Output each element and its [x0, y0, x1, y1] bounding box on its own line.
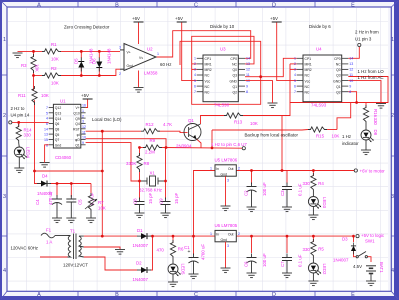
svg-text:D8: D8: [373, 130, 378, 136]
svg-text:16: 16: [82, 104, 86, 108]
svg-text:330: 330: [24, 133, 32, 138]
svg-text:2: 2: [391, 113, 394, 119]
svg-text:330: 330: [303, 181, 311, 186]
svg-text:+5V: +5V: [81, 93, 89, 98]
svg-text:11: 11: [246, 73, 250, 77]
svg-text:9: 9: [82, 141, 84, 145]
svg-text:Backup from local oscillator: Backup from local oscillator: [245, 133, 299, 138]
svg-text:R16: R16: [373, 109, 378, 118]
svg-text:U1 pin 3: U1 pin 3: [355, 37, 372, 42]
ground C5: [66, 218, 76, 223]
svg-text:Q7: Q7: [55, 138, 60, 142]
outer border band left: [0, 0, 2, 300]
wire Q1 emitter drop: [197, 139, 202, 148]
svg-text:B: B: [115, 3, 119, 9]
wire bottom rail to R11: [33, 76, 35, 91]
svg-text:LED5: LED5: [181, 264, 186, 276]
svg-text:1 Hz to pin C,6 U7: 1 Hz to pin C,6 U7: [211, 142, 247, 147]
wire U5 Out +6V rail: [236, 170, 354, 172]
svg-text:1: 1: [391, 37, 394, 43]
svg-text:4: 4: [46, 117, 48, 121]
svg-text:U5 LM7806: U5 LM7806: [215, 158, 238, 163]
svg-text:D1: D1: [137, 228, 143, 233]
wire R11 bottom to backup rail: [34, 100, 36, 171]
wire U6 Out +5V rail: [236, 235, 353, 237]
svg-text:8: 8: [246, 90, 248, 94]
svg-text:11: 11: [82, 130, 86, 134]
ground LED5: [168, 282, 178, 287]
ground D8: [361, 150, 371, 155]
outer border band right: [394, 0, 399, 300]
capacitor C7: [282, 254, 292, 265]
svg-text:330K: 330K: [126, 161, 136, 166]
wire U1 pin down to crystal left: [86, 143, 140, 181]
capacitor C4: [52, 195, 62, 207]
svg-text:U4: U4: [316, 47, 322, 52]
wire U4 Q out 1Hz row: [348, 77, 388, 103]
wire U4 MR hooks: [290, 63, 297, 65]
svg-text:D2: D2: [136, 261, 142, 266]
svg-text:1 Hz from AC: 1 Hz from AC: [358, 75, 384, 80]
svg-text:C7: C7: [280, 261, 285, 267]
svg-text:BAT1: BAT1: [379, 262, 384, 273]
ground C8: [135, 213, 145, 218]
wire R2 right to opamp - input: [60, 69, 120, 75]
wire C6 hang: [251, 236, 253, 253]
svg-text:Q0: Q0: [336, 68, 341, 72]
wire C3 hang: [286, 171, 288, 185]
resistor R11: [32, 86, 37, 105]
svg-text:CD4060: CD4060: [55, 155, 72, 160]
svg-text:D4: D4: [42, 174, 48, 179]
wire C1 hang: [193, 236, 195, 255]
wire R14 hang: [18, 122, 20, 127]
svg-text:Vcc: Vcc: [305, 79, 311, 83]
svg-text:32.768 KHz: 32.768 KHz: [139, 188, 162, 193]
svg-text:In: In: [216, 167, 219, 171]
LED2: [308, 263, 321, 275]
svg-text:R12: R12: [146, 122, 155, 127]
wire center tap to ground: [84, 247, 120, 249]
svg-text:3: 3: [391, 194, 394, 200]
wire R15 feed drop: [211, 130, 213, 148]
svg-text:R2: R2: [51, 66, 57, 71]
svg-text:6: 6: [46, 122, 48, 126]
svg-text:7: 7: [46, 106, 48, 110]
resistor R4: [311, 173, 316, 192]
svg-text:2: 2: [294, 62, 296, 66]
svg-text:330: 330: [303, 247, 311, 252]
svg-text:2N3904: 2N3904: [176, 144, 192, 149]
svg-text:1N4148: 1N4148: [107, 48, 112, 64]
svg-text:φI: φI: [77, 133, 80, 137]
svg-text:+5V: +5V: [175, 16, 183, 21]
+6V supply opamp: [134, 21, 144, 23]
wire crystal left down to C8: [139, 181, 141, 199]
battery BAT1: [366, 266, 376, 281]
terminal 2 Hz to U4 pin 14: [9, 121, 12, 124]
+5V supply U3: [177, 21, 187, 23]
svg-text:Local Osc (LO): Local Osc (LO): [92, 117, 122, 122]
svg-text:10K: 10K: [35, 64, 40, 72]
resistor R6: [170, 240, 175, 259]
svg-text:1: 1: [157, 52, 159, 56]
capacitor C6: [247, 254, 257, 266]
wire C2 hang: [251, 171, 253, 185]
svg-text:F1: F1: [46, 228, 52, 233]
svg-text:1: 1: [210, 167, 212, 171]
svg-text:A: A: [37, 3, 41, 9]
wire U4 GND to ground: [348, 81, 381, 104]
svg-text:GND: GND: [333, 79, 341, 83]
ground C6: [247, 273, 257, 278]
svg-text:11: 11: [349, 73, 353, 77]
svg-text:1: 1: [194, 57, 196, 61]
wire R12 to Q1 base: [158, 131, 188, 132]
svg-text:5: 5: [46, 111, 48, 115]
wire opamp ground stub: [138, 71, 140, 88]
resistor R14: [16, 124, 21, 143]
transistor Q1: [184, 124, 201, 141]
svg-text:Q10: Q10: [73, 112, 80, 116]
svg-text:470: 470: [157, 248, 165, 253]
svg-text:D: D: [272, 3, 276, 9]
wire R15 row from Q1 emitter line: [212, 129, 308, 132]
svg-text:+5V to logic: +5V to logic: [361, 233, 385, 238]
wire backup D4 branch: [35, 171, 42, 184]
wire cascade U3 to U4 CP1: [261, 58, 297, 76]
svg-text:6: 6: [194, 84, 196, 88]
wire Q1 collector to R13: [201, 116, 225, 125]
svg-text:E: E: [351, 292, 355, 298]
svg-text:10K: 10K: [250, 121, 258, 126]
wire R5 hang: [312, 236, 314, 242]
svg-text:100 uF: 100 uF: [262, 253, 267, 267]
svg-text:330: 330: [373, 118, 378, 126]
svg-text:LED2: LED2: [322, 264, 327, 276]
diode D3: [351, 243, 356, 255]
svg-text:Q1: Q1: [75, 144, 80, 148]
svg-text:10K: 10K: [98, 206, 106, 211]
svg-text:470 uF: 470 uF: [48, 191, 53, 205]
wire R8 bottom to crystal: [139, 172, 141, 182]
svg-text:1: 1: [210, 232, 212, 236]
wire secondary top to D1: [84, 235, 138, 237]
svg-text:CP1: CP1: [305, 57, 312, 61]
svg-text:C4: C4: [35, 199, 40, 205]
resistor R15: [308, 127, 327, 132]
svg-text:MR1: MR1: [305, 63, 312, 67]
wire D6 column: [98, 51, 100, 58]
svg-text:120V:12VCT: 120V:12VCT: [63, 263, 88, 268]
svg-text:Zero Crossing Detector: Zero Crossing Detector: [64, 25, 110, 30]
svg-text:NC: NC: [205, 74, 210, 78]
wire U4 Q2 down to 1Hz node: [348, 92, 356, 103]
svg-text:Gnd: Gnd: [127, 64, 134, 68]
svg-text:NC: NC: [205, 85, 210, 89]
svg-text:A: A: [37, 292, 41, 298]
ground C4: [52, 218, 62, 223]
svg-text:2: 2: [82, 114, 84, 118]
resistor R3: [31, 54, 36, 73]
svg-text:CP1: CP1: [205, 57, 212, 61]
svg-text:Out: Out: [228, 233, 234, 237]
svg-text:NC: NC: [205, 90, 210, 94]
wire D2 up to rect rail: [150, 236, 153, 270]
wire C4 hang: [56, 184, 58, 198]
svg-text:+6V: +6V: [132, 16, 140, 21]
diode D1: [137, 233, 151, 239]
svg-text:14: 14: [44, 127, 48, 131]
svg-text:LM358: LM358: [144, 71, 158, 76]
svg-text:Q3: Q3: [336, 74, 341, 78]
svg-text:7: 7: [294, 90, 296, 94]
svg-text:Gnd: Gnd: [221, 172, 228, 176]
svg-text:3: 3: [227, 244, 229, 248]
wire R8 top: [139, 148, 141, 157]
svg-text:R8: R8: [144, 161, 150, 166]
wire +5V to U1 V+: [86, 100, 88, 108]
svg-text:12: 12: [246, 68, 250, 72]
svg-text:Q2: Q2: [232, 90, 237, 94]
svg-text:74LS93: 74LS93: [311, 103, 327, 108]
svg-text:2: 2: [119, 72, 121, 76]
svg-text:15 pF: 15 pF: [174, 192, 179, 204]
svg-text:4: 4: [391, 268, 394, 274]
svg-text:9: 9: [349, 84, 351, 88]
svg-text:15 pF: 15 pF: [148, 192, 153, 204]
wire +5V to U3 Vcc: [182, 23, 197, 81]
LED4: [14, 147, 27, 159]
svg-text:LED4: LED4: [26, 147, 31, 159]
wire zero-cross top rail: [18, 50, 45, 52]
LED3: [308, 197, 321, 209]
svg-text:R4: R4: [318, 181, 324, 186]
svg-text:15: 15: [44, 138, 48, 142]
crystal X1: [141, 176, 164, 186]
ground LED2: [308, 281, 318, 286]
ground C9: [161, 213, 171, 218]
wire zero-cross bottom rail: [34, 75, 45, 77]
capacitor C5: [66, 195, 76, 206]
wire +6V supply to opamp: [138, 23, 140, 45]
svg-text:10K: 10K: [332, 134, 340, 139]
svg-text:D6: D6: [92, 58, 97, 64]
svg-text:Q6: Q6: [55, 122, 60, 126]
ground U1: [40, 163, 50, 168]
svg-text:CP0: CP0: [230, 57, 237, 61]
svg-text:R3: R3: [21, 63, 27, 68]
resistor R5: [311, 239, 316, 258]
svg-text:3: 3: [82, 120, 84, 124]
ground BAT1: [366, 281, 376, 286]
diode D4: [37, 181, 51, 187]
fuse F1: [41, 233, 55, 238]
svg-text:13: 13: [44, 133, 48, 137]
svg-text:RST: RST: [73, 128, 80, 132]
svg-text:Q9: Q9: [75, 117, 80, 121]
svg-text:NC: NC: [305, 74, 310, 78]
svg-text:R9: R9: [150, 138, 156, 143]
svg-text:Q3: Q3: [232, 74, 237, 78]
svg-text:3: 3: [294, 68, 296, 72]
svg-text:12: 12: [349, 68, 353, 72]
IC U3 74LS90: [197, 55, 245, 102]
svg-text:1N4007: 1N4007: [333, 258, 349, 263]
wire R1 to opamp + input: [60, 50, 120, 52]
svg-text:14: 14: [246, 57, 250, 61]
ground U6: [221, 268, 231, 273]
ground below U3: [268, 103, 278, 108]
wire rect rail to U6 In: [150, 235, 215, 237]
svg-text:10K: 10K: [51, 57, 59, 62]
LED D8: [361, 130, 374, 142]
wire R6 hang: [172, 236, 174, 243]
svg-text:D: D: [272, 292, 276, 298]
svg-text:13: 13: [349, 62, 353, 66]
diode D5: [78, 58, 84, 72]
svg-text:Q1: Q1: [188, 118, 194, 123]
svg-text:2.2M: 2.2M: [145, 150, 155, 155]
svg-text:D3: D3: [342, 237, 348, 242]
wire D3 to switch: [354, 250, 357, 257]
wire C5 hang: [70, 184, 72, 198]
svg-text:100 uF: 100 uF: [262, 182, 267, 196]
svg-text:NC: NC: [232, 63, 237, 67]
svg-text:Q1: Q1: [336, 85, 341, 89]
IC U1 CD4060: [49, 104, 86, 148]
wire R9 emitter 1Hz row: [140, 147, 144, 149]
svg-text:3: 3: [194, 68, 196, 72]
wire U3 Q out to cascade: [245, 76, 261, 78]
svg-text:E: E: [351, 3, 355, 9]
wire U4 bottom loop: [290, 64, 357, 103]
svg-text:T1: T1: [70, 229, 76, 234]
svg-text:C8: C8: [133, 198, 138, 204]
svg-text:4700 uF: 4700 uF: [201, 244, 206, 260]
svg-text:1: 1: [294, 57, 296, 61]
svg-text:1: 1: [3, 37, 6, 43]
wire U1 pin to R12: [86, 130, 141, 132]
svg-text:6: 6: [294, 84, 296, 88]
svg-text:U6 LM7805: U6 LM7805: [215, 223, 238, 228]
svg-text:10K: 10K: [51, 81, 59, 86]
svg-text:Divide by 10: Divide by 10: [210, 24, 235, 29]
wire secondary bottom to D2: [84, 257, 138, 270]
svg-text:+: +: [188, 249, 191, 255]
resistor R12: [141, 129, 160, 134]
ground U4: [376, 104, 386, 109]
wire U5 In from C1 node: [194, 171, 216, 237]
svg-text:+6V to motor: +6V to motor: [360, 169, 386, 174]
wire fuse to primary: [55, 235, 68, 237]
wire switch to battery: [368, 257, 372, 262]
op-amp U2: [120, 44, 156, 71]
transformer T1: [68, 234, 84, 260]
svg-text:60 Hz: 60 Hz: [160, 62, 171, 67]
capacitor C1: [189, 254, 199, 266]
wire D5 column: [80, 51, 82, 58]
wire C7 hang: [286, 236, 288, 253]
svg-text:Q0: Q0: [232, 68, 237, 72]
ground R7: [86, 218, 96, 223]
svg-text:13: 13: [246, 62, 250, 66]
svg-text:VS: VS: [139, 56, 143, 60]
capacitor C8: [135, 198, 145, 209]
capacitor C2: [247, 183, 257, 195]
svg-text:2: 2: [194, 62, 196, 66]
svg-text:1 A: 1 A: [46, 240, 52, 245]
wire backup vertical to rect rail: [101, 131, 103, 236]
ground C3: [282, 207, 292, 212]
svg-text:0.1 uF: 0.1 uF: [298, 254, 303, 267]
svg-text:4: 4: [294, 73, 296, 77]
svg-text:1N4007: 1N4007: [133, 277, 149, 282]
LED5: [168, 264, 181, 276]
terminal 2Hz in from U1 pin 3: [358, 43, 361, 46]
terminal +5V to logic: [356, 235, 359, 238]
svg-text:X1: X1: [150, 171, 156, 176]
ground center tap: [115, 250, 125, 255]
wire crystal right up: [165, 148, 168, 182]
wire D4 to C4 C5 R7: [50, 183, 91, 185]
wire U3 MR hooks: [192, 63, 197, 65]
wire 2Hz terminal to U4 CP0: [348, 47, 359, 59]
svg-text:3: 3: [227, 179, 229, 183]
wire R15 right jog up to 1Hz node: [337, 103, 351, 130]
ground LED3: [308, 215, 318, 220]
svg-text:CP0: CP0: [334, 57, 341, 61]
svg-text:C3: C3: [280, 190, 285, 196]
ground U5: [221, 206, 231, 211]
svg-text:R5: R5: [318, 247, 324, 252]
wire R3 column: [33, 51, 35, 57]
svg-text:Q2: Q2: [336, 90, 341, 94]
svg-text:3: 3: [3, 194, 6, 200]
svg-text:4: 4: [3, 268, 6, 274]
terminal +6V to motor: [354, 169, 357, 172]
svg-text:NC: NC: [305, 85, 310, 89]
svg-text:5: 5: [194, 79, 196, 83]
wire +5V to U4 Vcc: [277, 23, 297, 81]
svg-text:Divide by 6: Divide by 6: [309, 24, 331, 29]
wire 2Hz terminal to U1: [12, 121, 49, 123]
svg-text:14: 14: [349, 57, 353, 61]
svg-text:C6: C6: [244, 261, 249, 267]
svg-text:2: 2: [3, 113, 6, 119]
wire U3 feedback loop left: [180, 36, 261, 104]
resistor R8: [137, 153, 142, 172]
resistor R9: [143, 145, 162, 150]
svg-text:NC: NC: [305, 90, 310, 94]
wire R13 node to U4 loop: [282, 103, 290, 116]
svg-text:C9: C9: [159, 198, 164, 204]
ground LED4: [14, 168, 24, 173]
wire D3 hang: [353, 236, 355, 242]
wire R4 hang: [312, 171, 314, 177]
ground below opamp: [134, 88, 144, 93]
svg-text:4: 4: [194, 73, 196, 77]
wire R15 body leads: [327, 129, 337, 131]
wire R13 right to +6V rail: [243, 116, 282, 171]
svg-text:D5: D5: [74, 58, 79, 64]
svg-text:Q14: Q14: [55, 117, 62, 121]
svg-text:2 Hz in from: 2 Hz in from: [355, 30, 379, 35]
svg-text:U3: U3: [220, 47, 226, 52]
svg-text:2 Hz to: 2 Hz to: [11, 106, 25, 111]
svg-text:C2: C2: [244, 190, 249, 196]
svg-text:4.5V: 4.5V: [353, 264, 362, 269]
